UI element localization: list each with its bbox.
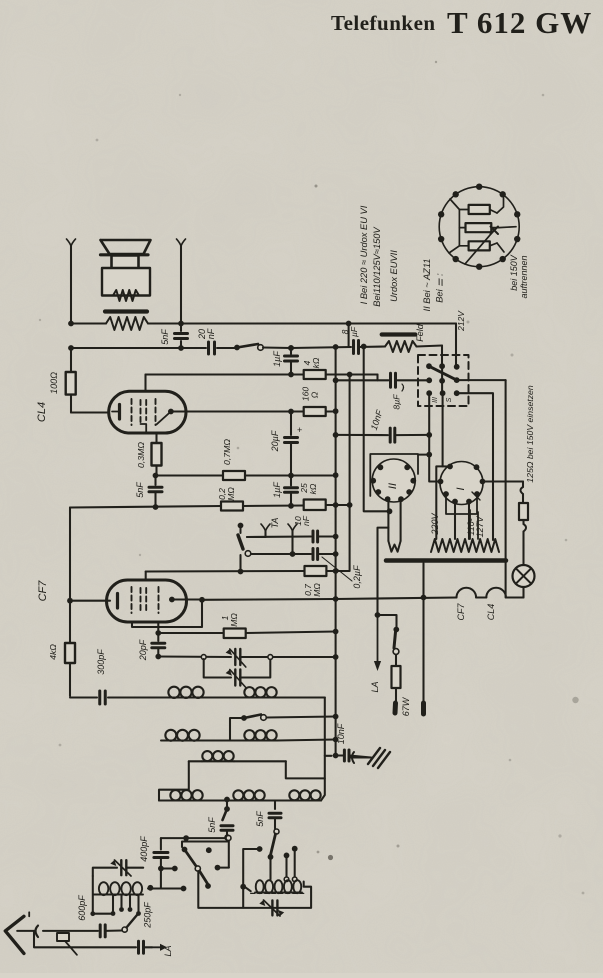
title Telefunken T 612 GW	[331, 5, 592, 40]
label 0.2µF	[352, 565, 362, 589]
annotation 0.2µF line	[322, 557, 352, 581]
svg-text:0,2µF: 0,2µF	[352, 565, 362, 589]
capacitor 10nF anode	[390, 428, 429, 442]
svg-text:CF7: CF7	[37, 580, 49, 602]
resistor 0.2MΩ	[221, 502, 243, 511]
heater chain wire	[202, 588, 524, 601]
switch TA	[238, 523, 251, 572]
capacitor 1µF cathode	[285, 476, 298, 506]
tube CL4 grid2	[141, 400, 147, 433]
svg-text:600pF: 600pF	[77, 895, 87, 921]
svg-text:T 612 GW: T 612 GW	[447, 5, 592, 40]
svg-text:LA: LA	[370, 681, 380, 692]
wire y411.5 anode CL4	[186, 408, 339, 414]
wire y380.3	[333, 377, 430, 383]
label 10nF TA	[293, 515, 311, 526]
wire y571.5	[146, 569, 305, 580]
hum-bucking resistor	[106, 317, 148, 330]
label Feld	[415, 323, 425, 342]
label 110-127V	[466, 515, 485, 537]
svg-text:CL4: CL4	[486, 604, 496, 621]
svg-text:0,3MΩ: 0,3MΩ	[136, 442, 146, 468]
svg-text:10nF: 10nF	[336, 723, 346, 744]
capacitor 5nF2	[269, 813, 281, 834]
switch band AB	[230, 714, 339, 741]
label 250pF	[143, 902, 153, 929]
svg-text:0,7MΩ: 0,7MΩ	[222, 439, 232, 465]
svg-text:Telefunken: Telefunken	[331, 11, 436, 35]
resistor 4kΩ	[304, 370, 326, 379]
capacitor 8µF feld	[291, 341, 385, 354]
trimmer band left	[93, 860, 143, 876]
coil D2	[233, 790, 265, 800]
tube socket II	[370, 459, 416, 502]
svg-text:1µF: 1µF	[272, 351, 282, 367]
label 160Ω	[301, 387, 320, 401]
field coil core	[382, 332, 416, 336]
antenna plug hook	[29, 912, 38, 937]
voltage selector box	[418, 355, 469, 406]
svg-text:Ω: Ω	[310, 391, 320, 398]
rail x335.6	[333, 347, 339, 758]
svg-text:bei 150V: bei 150V	[509, 254, 519, 291]
tube socket I	[438, 462, 486, 505]
capacitor 10nF ground	[336, 750, 371, 761]
wire TA upper	[247, 535, 311, 538]
speaker terminal right	[177, 239, 186, 324]
svg-text:I Bei 220 ≈ Urdox EU VI: I Bei 220 ≈ Urdox EU VI	[359, 205, 369, 304]
switch LA	[378, 615, 400, 654]
capacitor 10nF TA upper	[313, 531, 339, 542]
tube CL4 envelope	[109, 391, 186, 433]
tube CF7 grid3	[158, 587, 160, 613]
svg-text:4kΩ: 4kΩ	[48, 644, 58, 660]
label LA antenna	[163, 945, 173, 956]
tube CL4 grid1	[131, 399, 133, 425]
wire TA lower	[250, 553, 312, 555]
label 400pF	[139, 836, 149, 862]
capacitor 400pF	[154, 838, 168, 888]
capacitor 8µF smoothing	[391, 373, 396, 387]
label 20µF	[270, 425, 302, 452]
coil D1	[170, 790, 203, 800]
label CL4	[36, 402, 48, 422]
label 125Ω	[525, 385, 535, 483]
band coil left	[93, 876, 143, 914]
socket II shield box	[370, 452, 432, 496]
rail x349.6 upper	[349, 324, 350, 506]
capacitor 10nF TA lower	[313, 549, 339, 560]
trimmer cap upper	[201, 649, 246, 667]
svg-text:212V: 212V	[456, 310, 466, 332]
trimmer cap lower	[226, 670, 246, 688]
svg-text:LA: LA	[163, 945, 173, 956]
wire 5nF2 stub	[274, 801, 276, 810]
label CL4 heater	[486, 604, 496, 621]
heater winding	[431, 539, 499, 552]
coil B1	[165, 730, 200, 741]
capacitor 5nF speaker	[175, 324, 188, 349]
svg-text:125Ω bei 150V einsetzen: 125Ω bei 150V einsetzen	[525, 385, 535, 483]
wire y374.5 grid CL4	[146, 372, 378, 392]
note II Bei AZ11	[422, 259, 432, 312]
resistor 0.3MΩ	[152, 443, 162, 476]
svg-text:10nF: 10nF	[369, 408, 385, 431]
label 100Ω	[49, 372, 59, 394]
band switch contacts right	[240, 846, 297, 908]
resistor 0.7MΩ	[223, 471, 245, 480]
field coil resistor	[385, 341, 417, 352]
svg-text:MΩ: MΩ	[229, 613, 239, 627]
label 10nF anode	[369, 408, 385, 431]
label CF7 tube	[37, 580, 49, 602]
label 1µF coupling	[272, 351, 282, 367]
wire antenna lower	[34, 931, 152, 953]
tube CF7 envelope	[107, 580, 187, 622]
coil B2	[244, 730, 277, 740]
tube CF7 anode	[132, 597, 205, 627]
svg-text:127V: 127V	[475, 515, 485, 537]
label 5nF speaker	[160, 329, 170, 345]
wire x456 down	[455, 324, 457, 367]
arrow LA antenna	[152, 944, 167, 951]
svg-text:220V: 220V	[430, 512, 440, 535]
trimmer loop	[204, 655, 273, 678]
capacitor 5nF grid	[149, 476, 162, 506]
svg-text:I: I	[455, 487, 467, 490]
label 0.7MΩ det	[303, 583, 322, 597]
capacitor 5nF1	[221, 826, 233, 840]
svg-text:8µF: 8µF	[392, 394, 402, 410]
note Bei =	[435, 273, 445, 303]
pilot lamp	[513, 565, 535, 598]
plug X mark	[491, 227, 499, 235]
label bei 150V auftrennen	[509, 254, 529, 298]
svg-text:µF: µF	[349, 326, 359, 337]
label 10nF ground	[336, 723, 346, 744]
rectifier plug circle	[439, 187, 519, 267]
plug resistor 2	[466, 223, 492, 232]
label 1µF cathode	[272, 482, 282, 498]
label 1MΩ	[220, 613, 239, 627]
label 0.3MΩ	[136, 442, 146, 468]
coil A1	[168, 687, 204, 698]
svg-text:CF7: CF7	[456, 603, 466, 621]
trimmer band right	[259, 900, 284, 916]
band box right outline	[198, 871, 311, 908]
svg-text:20µF: 20µF	[270, 430, 280, 452]
svg-text:CL4: CL4	[36, 402, 48, 422]
label LA	[370, 681, 380, 692]
label 20nF	[197, 328, 216, 340]
note Urdox EUVII	[389, 250, 399, 302]
label 5nF1	[207, 817, 217, 833]
selector wires down	[426, 393, 493, 540]
plug resistor 1	[469, 205, 490, 214]
socket I bottom loop	[446, 494, 477, 539]
resistor 25kΩ	[304, 500, 326, 511]
svg-text:300pF: 300pF	[96, 649, 106, 675]
svg-text:nF: nF	[301, 515, 311, 526]
switch wave left	[182, 847, 212, 889]
wire row C	[159, 761, 286, 800]
svg-text:Feld: Feld	[415, 323, 425, 342]
antenna	[5, 916, 34, 953]
resistor 100Ω	[66, 348, 109, 413]
tube CF7 grid3 lead	[155, 622, 161, 636]
label 5nF2	[255, 811, 265, 827]
wire x423 plug	[422, 563, 424, 714]
socket II prongs	[375, 499, 401, 618]
output transformer box	[102, 268, 150, 296]
label 220V	[430, 512, 440, 535]
wire y475.5	[153, 472, 339, 478]
coil A2	[244, 687, 277, 697]
tube CL4 anode	[157, 409, 187, 425]
svg-text:auftrennen: auftrennen	[519, 255, 529, 298]
wire y348	[68, 345, 237, 351]
label 20pF	[138, 639, 148, 661]
label 5nF grid	[135, 482, 145, 498]
label 8µF feld	[340, 326, 359, 337]
label CF7 heater	[456, 603, 466, 621]
svg-text:Bei110/125V≈150V: Bei110/125V≈150V	[372, 227, 382, 307]
resistor 67W	[392, 655, 401, 714]
tube CL4 grid3 lead	[155, 433, 157, 443]
transformer winding resistor	[113, 290, 139, 301]
switch S1	[234, 344, 294, 351]
switch 5nF1	[223, 797, 230, 820]
selector contacts	[426, 363, 460, 396]
winding taps	[470, 510, 478, 539]
ink specks	[39, 61, 585, 895]
tube CL4 cathode	[112, 405, 120, 420]
capacitor 20µF	[285, 412, 298, 476]
wire row B	[161, 737, 339, 743]
svg-text:67W: 67W	[401, 696, 411, 716]
band coil right	[251, 857, 307, 894]
wire y434.9	[333, 432, 388, 438]
tube CF7 grid1	[131, 587, 133, 613]
svg-text:250pF: 250pF	[143, 902, 153, 929]
band coil left taps	[90, 895, 141, 917]
wire anode supply y323	[68, 321, 456, 327]
socket I right lead	[483, 482, 524, 488]
capacitor 20nF	[209, 342, 215, 354]
svg-text:II Bei ~ AZ11: II Bei ~ AZ11	[422, 259, 432, 312]
svg-text:MΩ: MΩ	[312, 583, 322, 597]
switch 5nF2 lever	[268, 834, 276, 860]
label 212V	[456, 310, 466, 332]
label 4kΩ	[302, 357, 321, 368]
selector lever	[429, 366, 506, 393]
svg-text:kΩ: kΩ	[311, 357, 321, 368]
transformer core bar	[105, 309, 147, 313]
tube CF7 grid2	[141, 588, 147, 612]
svg-text:TA: TA	[270, 518, 280, 529]
tube CF7 cathode line	[70, 594, 118, 609]
label 300pF	[96, 649, 106, 675]
svg-text:MΩ: MΩ	[226, 487, 236, 501]
wire y633	[158, 629, 338, 635]
resistor 1MΩ	[224, 629, 246, 639]
note Bei 110/125V	[372, 227, 382, 307]
svg-text:20pF: 20pF	[138, 639, 148, 661]
capacitor 300pF	[100, 691, 106, 704]
arrow LA	[374, 615, 381, 671]
loudspeaker cone	[101, 240, 151, 255]
speaker voice coil	[112, 256, 139, 276]
svg-text:5nF: 5nF	[255, 811, 265, 827]
wire 400pF bottom	[148, 866, 187, 892]
capacitor 600pF	[100, 925, 122, 937]
wire feld to selector	[417, 346, 443, 367]
svg-text:5nF: 5nF	[135, 482, 145, 498]
capacitor 1µF coupling	[285, 345, 298, 374]
label TA	[270, 518, 280, 529]
terminal TA right	[288, 524, 297, 557]
resistor 160Ω	[304, 407, 326, 416]
resistor 4kΩ cathode CF7	[65, 643, 75, 663]
mains bar	[386, 558, 506, 563]
svg-text:II: II	[387, 483, 399, 489]
label 25kΩ	[299, 483, 318, 494]
tube CL4 grid3	[155, 399, 157, 425]
label 0.2MΩ	[217, 487, 236, 501]
note I Bei 220	[359, 205, 369, 304]
wire x505 down	[505, 380, 507, 597]
wire y656.5	[158, 654, 338, 660]
label 8µF smoothing	[392, 384, 404, 410]
label III S	[432, 397, 453, 403]
fuse link	[43, 931, 98, 955]
rectifier plug pins	[438, 184, 520, 270]
wire 400pF top	[161, 835, 229, 841]
svg-text:Urdox EUVII: Urdox EUVII	[389, 250, 399, 302]
svg-text:5nF: 5nF	[207, 817, 217, 833]
svg-text:nF: nF	[206, 328, 216, 339]
label 67W	[401, 696, 411, 716]
svg-text:Bei ⚌ :: Bei ⚌ :	[435, 273, 445, 303]
wire x363 down	[364, 347, 393, 515]
label 4kΩ cathode	[48, 644, 58, 660]
svg-text:100Ω: 100Ω	[49, 372, 59, 394]
plug resistor 3	[469, 241, 490, 250]
svg-text:1µF: 1µF	[272, 482, 282, 498]
wire y841	[182, 840, 228, 847]
svg-text:+: +	[297, 425, 302, 435]
wire y505.5	[70, 502, 353, 510]
label 600pF	[77, 895, 87, 921]
svg-text:III: III	[432, 397, 439, 403]
capacitor 20pF	[152, 633, 165, 659]
speaker terminal left	[67, 239, 76, 324]
coil D3	[289, 790, 321, 800]
resistor 0.7MΩ det	[305, 505, 350, 576]
svg-text:S: S	[446, 397, 453, 402]
coil C1	[202, 751, 234, 761]
svg-text:kΩ: kΩ	[308, 483, 318, 494]
resistor 125Ω hooks	[519, 487, 528, 565]
wire left rail x70	[67, 508, 97, 698]
switch wave contacts	[215, 836, 231, 871]
svg-text:5nF: 5nF	[160, 329, 170, 345]
ground	[350, 748, 391, 768]
wire row D	[159, 799, 289, 801]
svg-text:400pF: 400pF	[139, 836, 149, 862]
label 0.7MΩ	[222, 439, 232, 465]
wire y697.5 row A	[108, 698, 332, 801]
terminal TA left	[247, 524, 270, 537]
switch antenna ring	[122, 915, 137, 932]
plug wiring	[449, 198, 516, 265]
